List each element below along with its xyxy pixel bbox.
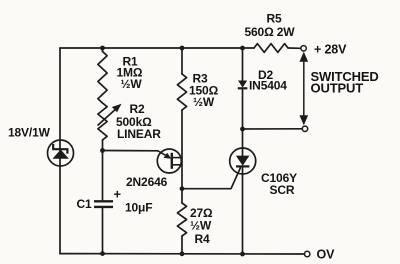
wire D2 anode column — [242, 48, 244, 81]
svg-text:½W: ½W — [121, 77, 143, 91]
terminal OV — [305, 251, 310, 256]
resistor R5 — [254, 44, 288, 53]
zener diode D1 18V/1W — [48, 140, 74, 166]
SCR C106Y — [230, 148, 256, 174]
resistor R1 — [98, 52, 107, 104]
svg-text:+ 28V: + 28V — [314, 43, 347, 57]
wire SCR cathode to bottom rail — [242, 167, 244, 255]
diode D2 — [238, 81, 248, 89]
node top D2 — [240, 46, 245, 51]
svg-text:OUTPUT: OUTPUT — [311, 81, 364, 96]
label R4 wattage — [190, 219, 212, 233]
label R2 — [130, 102, 146, 116]
resistor R3 — [177, 74, 186, 110]
label 27 ohm R4 value — [190, 206, 213, 220]
potentiometer R2 arrow — [98, 104, 122, 126]
svg-text:LINEAR: LINEAR — [117, 127, 161, 141]
label 18V/1W — [8, 126, 51, 140]
label R2 value 500k ohm — [116, 115, 152, 129]
wire D2 cathode to SCR anode — [242, 89, 244, 157]
resistor R4 — [177, 203, 186, 236]
label SCR — [270, 183, 295, 197]
wire R3 to gate node — [181, 110, 183, 203]
node bottom C1 — [100, 251, 105, 256]
wire R2 to C1 node — [102, 140, 104, 201]
wire R1 branch top — [102, 48, 104, 52]
terminal +28V — [301, 46, 306, 51]
label D2 — [258, 68, 274, 82]
node SCR anode output — [240, 127, 245, 132]
label R4 — [195, 232, 211, 246]
node top R3 — [180, 46, 185, 51]
svg-text:+: + — [114, 187, 122, 202]
terminal switched output lower — [302, 126, 307, 131]
label R5 value 560 ohm 2W — [245, 25, 296, 39]
svg-text:R5: R5 — [267, 12, 283, 26]
svg-text:OV: OV — [317, 248, 336, 262]
resistor R2 (potentiometer) — [98, 103, 107, 140]
wire top rail — [60, 47, 254, 49]
label R3 — [193, 72, 209, 86]
svg-text:R2: R2 — [130, 102, 146, 116]
svg-text:560Ω 2W: 560Ω 2W — [245, 25, 296, 39]
wire node A to UJT emitter — [103, 150, 158, 152]
label +28V — [314, 43, 347, 57]
svg-text:IN5404: IN5404 — [249, 79, 287, 93]
wire R4 to bottom rail — [181, 236, 183, 254]
label OUTPUT — [311, 81, 364, 96]
label R1 value 1M ohm — [117, 66, 143, 80]
svg-text:18V/1W: 18V/1W — [8, 126, 51, 140]
svg-text:10μF: 10μF — [125, 201, 152, 215]
label R1 wattage — [121, 77, 143, 91]
label SWITCHED — [311, 69, 379, 84]
wire C1 to bottom rail — [102, 207, 104, 254]
node A R2-C1-emitter — [100, 148, 105, 153]
svg-text:½W: ½W — [193, 95, 215, 109]
svg-text:2N2646: 2N2646 — [126, 175, 168, 189]
svg-text:½W: ½W — [190, 219, 212, 233]
transistor Q1 UJT 2N2646 — [157, 149, 182, 173]
svg-text:SCR: SCR — [270, 183, 295, 197]
label R3 value 150 ohm — [189, 84, 219, 98]
wire R5 to +28V terminal — [288, 47, 301, 49]
capacitor C1 — [94, 201, 113, 207]
label R5 — [267, 12, 283, 26]
label OV — [317, 248, 336, 262]
wire SCR gate — [182, 168, 240, 189]
label C1 plus — [114, 187, 122, 202]
label R1 — [123, 55, 139, 69]
wire switched output lower — [243, 128, 303, 130]
svg-text:R4: R4 — [195, 232, 211, 246]
label D2 value IN5404 — [249, 79, 287, 93]
label R3 wattage — [193, 95, 215, 109]
label C1 value 10uF — [125, 201, 152, 215]
node gate R4 — [180, 186, 185, 191]
label R2 LINEAR — [117, 127, 161, 141]
wire bottom rail — [60, 253, 305, 255]
switched output arrow — [301, 54, 307, 124]
node bottom R4 — [180, 251, 185, 256]
label C1 — [77, 197, 93, 211]
node bottom SCR — [240, 252, 245, 257]
label 2N2646 — [126, 175, 168, 189]
svg-text:C1: C1 — [77, 197, 93, 211]
wire R3 branch top — [181, 48, 183, 74]
label C106Y — [261, 171, 297, 185]
node top R1 — [100, 46, 105, 51]
wire left column — [59, 48, 61, 254]
